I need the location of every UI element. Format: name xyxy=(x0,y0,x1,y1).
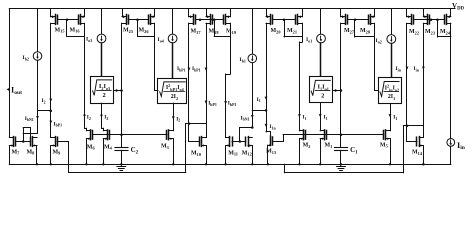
svg-text:M9: M9 xyxy=(53,149,61,155)
svg-text:2: 2 xyxy=(321,92,324,99)
svg-text:M6: M6 xyxy=(87,144,96,150)
svg-text:M3: M3 xyxy=(161,144,169,150)
svg-text:I1: I1 xyxy=(324,115,328,121)
svg-text:I2: I2 xyxy=(176,116,180,122)
svg-text:Ib1: Ib1 xyxy=(240,57,246,63)
svg-text:C2: C2 xyxy=(131,146,139,155)
svg-text:M8: M8 xyxy=(27,149,35,155)
svg-text:M12: M12 xyxy=(242,150,252,156)
svg-text:M7: M7 xyxy=(12,149,21,155)
svg-text:IbP1: IbP1 xyxy=(177,66,186,72)
svg-text:IbP1: IbP1 xyxy=(54,121,63,127)
svg-text:M18: M18 xyxy=(209,29,219,35)
svg-text:M1: M1 xyxy=(325,143,333,149)
svg-text:VDD: VDD xyxy=(452,2,465,11)
svg-text:Iout: Iout xyxy=(11,86,22,96)
svg-text:Iin: Iin xyxy=(414,66,420,72)
svg-text:M4: M4 xyxy=(104,144,113,150)
svg-text:I2: I2 xyxy=(87,115,91,121)
svg-text:M28: M28 xyxy=(360,28,370,34)
svg-text:M16: M16 xyxy=(70,27,81,33)
svg-text:M13: M13 xyxy=(266,149,276,155)
svg-text:M17: M17 xyxy=(191,29,202,35)
svg-text:M22: M22 xyxy=(409,29,419,35)
svg-text:I1: I1 xyxy=(303,115,307,121)
svg-text:Io2: Io2 xyxy=(376,38,382,44)
svg-text:2I1: 2I1 xyxy=(388,94,395,101)
svg-text:I1: I1 xyxy=(257,97,261,103)
svg-text:M24: M24 xyxy=(440,29,451,35)
svg-text:Iin: Iin xyxy=(396,66,402,72)
svg-text:M26: M26 xyxy=(139,28,150,34)
svg-text:M2: M2 xyxy=(303,143,311,149)
svg-text:M23: M23 xyxy=(425,29,435,35)
svg-text:IbP1: IbP1 xyxy=(192,66,201,72)
svg-text:Iin: Iin xyxy=(457,141,466,151)
svg-text:M19: M19 xyxy=(226,29,236,35)
svg-text:IbN1: IbN1 xyxy=(25,116,34,122)
svg-text:M5: M5 xyxy=(380,142,388,148)
svg-text:I1: I1 xyxy=(393,115,397,121)
svg-text:M27: M27 xyxy=(344,28,355,34)
svg-text:M25: M25 xyxy=(123,28,133,34)
svg-text:Io1: Io1 xyxy=(306,37,312,43)
svg-text:I2: I2 xyxy=(42,98,46,104)
svg-text:Ib2: Ib2 xyxy=(23,55,29,61)
svg-text:M14: M14 xyxy=(412,150,423,156)
svg-text:C1: C1 xyxy=(350,146,358,155)
svg-text:M15: M15 xyxy=(55,27,65,33)
svg-text:IbP1: IbP1 xyxy=(228,101,237,107)
svg-text:M10: M10 xyxy=(191,151,201,157)
svg-text:M20: M20 xyxy=(271,28,281,34)
svg-text:IbN1: IbN1 xyxy=(241,115,250,121)
svg-text:IbP1: IbP1 xyxy=(208,101,217,107)
svg-text:I1n: I1n xyxy=(270,124,277,130)
svg-text:2: 2 xyxy=(102,92,105,99)
svg-text:Io3: Io3 xyxy=(86,37,92,43)
svg-text:Io4: Io4 xyxy=(158,37,164,43)
svg-text:M21: M21 xyxy=(287,28,297,34)
svg-text:2I2: 2I2 xyxy=(171,94,178,101)
svg-text:M11: M11 xyxy=(228,150,238,156)
svg-text:I2: I2 xyxy=(104,115,108,121)
